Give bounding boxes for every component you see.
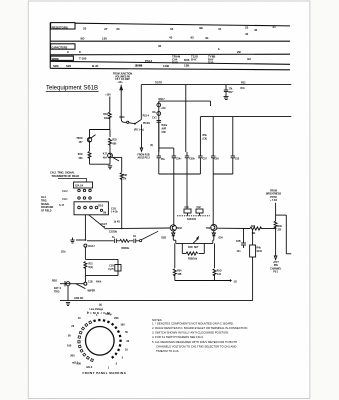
svg-text:+ D9: + D9 (161, 108, 167, 110)
svg-text:CH 1: CH 1 (62, 199, 68, 201)
svg-text:4b: 4b (205, 36, 209, 40)
svg-text:R3B/10k: R3B/10k (188, 259, 198, 261)
svg-text:1OB: 1OB (163, 64, 169, 68)
svg-text:SIGNAL: SIGNAL (41, 203, 50, 206)
svg-text:40b: 40b (104, 117, 109, 120)
svg-text:S20: S20 (66, 64, 72, 68)
svg-text:R21: R21 (89, 264, 94, 266)
svg-text:44: 44 (218, 27, 222, 31)
svg-text:C1/5: C1/5 (111, 208, 117, 210)
svg-text:3B: 3B (199, 26, 203, 30)
svg-text:+ 7-D4: + 7-D4 (270, 199, 278, 202)
svg-text:RESISTORS: RESISTORS (52, 25, 68, 29)
svg-text:C1B: C1B (88, 282, 93, 284)
svg-text:D3B: D3B (161, 238, 166, 240)
svg-text:4. FOR S1 SWITCH WAFERS SEE FI: 4. FOR S1 SWITCH WAFERS SEE FIG.6. (152, 335, 204, 339)
svg-text:TRIG: TRIG (54, 291, 60, 293)
svg-text:100: 100 (120, 322, 125, 326)
svg-text:FS 7 1/4 AMP: FS 7 1/4 AMP (115, 78, 130, 81)
svg-text:AVR: AVR (162, 128, 167, 131)
svg-text:27: 27 (104, 27, 108, 31)
svg-text:FROM END: FROM END (41, 207, 54, 209)
svg-text:CHANNEL: CHANNEL (270, 267, 282, 270)
svg-text:R45a: R45a (162, 124, 168, 127)
svg-text:D06: D06 (184, 58, 190, 62)
svg-text:10n: 10n (237, 251, 242, 253)
svg-text:3. SWITCH SHOWN IN FULLY ANTI-: 3. SWITCH SHOWN IN FULLY ANTI-CLOCKWISE … (152, 331, 229, 335)
svg-text:R67: R67 (229, 92, 234, 94)
svg-text:FROM: FROM (270, 191, 277, 193)
svg-text:R4O: R4O (188, 246, 193, 249)
svg-text:R8/B2x: R8/B2x (122, 248, 131, 250)
svg-text:C41: C41 (217, 273, 222, 276)
svg-text:R4b: R4b (257, 247, 262, 250)
svg-text:23: 23 (245, 26, 249, 30)
svg-text:R54: R54 (177, 270, 182, 273)
svg-text:CH.2. TRIG. SIGNAL: CH.2. TRIG. SIGNAL (50, 170, 75, 174)
svg-text:D20: D20 (208, 61, 214, 65)
svg-text:1. * DENOTES COMPONENTS NOT MO: 1. * DENOTES COMPONENTS NOT MOUNTED ON P… (152, 321, 234, 325)
svg-text:R1/3: R1/3 (98, 205, 104, 207)
svg-text:400h: 400h (96, 281, 102, 284)
svg-text:(b): (b) (99, 305, 102, 307)
svg-text:(PS 1-4c): (PS 1-4c) (134, 129, 144, 132)
svg-text:EXT. X: EXT. X (54, 288, 61, 290)
svg-text:CV1: CV1 (152, 118, 157, 120)
svg-text:PS2: PS2 (241, 83, 246, 85)
svg-text:C32: C32 (197, 207, 202, 209)
svg-text:NOTES:: NOTES: (152, 318, 162, 322)
svg-text:C31: C31 (185, 207, 190, 209)
svg-text:D34: D34 (219, 237, 224, 240)
svg-text:mS.1: mS.1 (72, 361, 79, 365)
svg-text:VOLUMES R6: VOLUMES R6 (115, 76, 131, 78)
svg-text:+10s: +10s (117, 82, 123, 84)
svg-text:1b 4O: 1b 4O (114, 221, 121, 224)
svg-text:R3B: R3B (123, 175, 128, 177)
svg-text:WIRE: WIRE (52, 57, 59, 61)
svg-text:92: 92 (191, 36, 195, 40)
svg-text:SET: SET (194, 247, 199, 249)
svg-text:R5b: R5b (203, 135, 208, 137)
svg-text:R3O: R3O (78, 154, 83, 156)
svg-text:BRIGHTNESS: BRIGHTNESS (266, 194, 282, 196)
svg-text:23: 23 (83, 26, 87, 30)
svg-text:POT/2: POT/2 (270, 197, 277, 199)
svg-text:FRONT PANEL MARKING: FRONT PANEL MARKING (83, 371, 127, 375)
svg-text:Cy75: Cy75 (108, 269, 114, 271)
svg-text:TR32: TR32 (176, 228, 182, 230)
svg-text:44B: 44B (177, 273, 182, 276)
svg-text:S-17: S-17 (59, 205, 65, 207)
svg-text:33: 33 (116, 27, 120, 31)
svg-text:Telequipment S61B: Telequipment S61B (46, 86, 98, 92)
svg-text:S44/C34: S44/C34 (187, 218, 197, 221)
svg-text:R32: R32 (113, 140, 118, 142)
svg-text:13B: 13B (184, 64, 189, 68)
svg-text:11-4B: 11-4B (135, 64, 143, 68)
svg-text:(C6): (C6) (203, 139, 208, 141)
svg-text:OF FIELD: OF FIELD (41, 211, 52, 213)
svg-text:3H: 3H (247, 57, 251, 61)
svg-text:C53: C53 (235, 159, 240, 161)
svg-text:D3B: D3B (172, 61, 178, 65)
svg-text:b: b (218, 47, 220, 51)
svg-text:R5O: R5O (217, 271, 222, 273)
svg-text:2. RA102 DENOTES P.C. BOARD EY: 2. RA102 DENOTES P.C. BOARD EYELET OR TE… (152, 326, 247, 330)
svg-text:C56: C56 (214, 159, 219, 161)
svg-text:WIPER: WIPER (88, 291, 96, 293)
svg-text:CH.1: CH.1 (41, 197, 47, 199)
svg-text:TRANSMITD OF FIELD: TRANSMITD OF FIELD (52, 174, 80, 178)
svg-text:RA3.7: RA3.7 (88, 245, 95, 248)
svg-text:2Ob: 2Ob (61, 252, 66, 254)
svg-text:CH 2: CH 2 (62, 191, 68, 193)
svg-text:FROM JUNCTION: FROM JUNCTION (113, 74, 132, 76)
svg-text:C3B: C3B (236, 241, 241, 243)
svg-text:S2A 1/4: S2A 1/4 (75, 184, 84, 187)
svg-text:PIN: PIN (274, 265, 278, 267)
svg-text:+TO?: +TO? (273, 262, 279, 264)
svg-text:40: 40 (254, 28, 258, 32)
svg-text:C57: C57 (203, 159, 208, 161)
svg-text:200: 200 (70, 353, 75, 357)
svg-text:5. ALL READINGS MEASURED WITH: 5. ALL READINGS MEASURED WITH 20K/V METE… (152, 340, 237, 344)
svg-text:S2B: S2B (53, 64, 59, 68)
svg-text:D5+: D5+ (161, 159, 166, 161)
svg-text:AB/12 PS.3: AB/12 PS.3 (138, 157, 151, 160)
svg-text:S100: S100 (257, 251, 263, 253)
svg-text:D41: D41 (241, 87, 246, 90)
svg-text:PS1-4: PS1-4 (143, 114, 150, 117)
svg-text:2B: 2B (237, 50, 241, 54)
svg-text:21: 21 (273, 25, 277, 29)
svg-text:mS-2: mS-2 (86, 365, 93, 369)
svg-text:TRIG.: TRIG. (41, 200, 47, 202)
svg-text:T-100: T-100 (79, 57, 87, 61)
svg-text:R49: R49 (278, 225, 283, 228)
svg-text:30: 30 (158, 44, 162, 48)
svg-text:130: 130 (102, 37, 107, 41)
svg-text:R46: R46 (251, 225, 256, 228)
svg-text:D4Y: D4Y (191, 58, 197, 62)
svg-text:PU/D4: PU/D4 (143, 122, 150, 125)
svg-text:R4/9: R4/9 (120, 116, 126, 119)
svg-text:-1O: -1O (233, 281, 237, 283)
svg-text:34: 34 (170, 27, 174, 31)
svg-text:1-4-2b: 1-4-2b (111, 210, 118, 213)
svg-text:D4+: D4+ (152, 111, 157, 114)
svg-text:100: 100 (67, 344, 72, 348)
svg-text:K17: K17 (103, 154, 108, 156)
svg-text:TIME/CM TO 1mS.: TIME/CM TO 1mS. (156, 349, 180, 353)
svg-text:CAPACITORS: CAPACITORS (52, 46, 68, 49)
svg-text:(F): (F) (150, 145, 153, 147)
svg-text:+10V: +10V (105, 94, 111, 96)
svg-text:C55h: C55h (189, 159, 195, 161)
svg-text:R6/17: R6/17 (159, 99, 166, 101)
svg-text:CHANNELS VOLTS/CM TO CH1 TRIG: CHANNELS VOLTS/CM TO CH1 TRIG SELECTOR T… (156, 344, 236, 348)
svg-text:42: 42 (245, 32, 249, 36)
svg-text:C38: C38 (162, 132, 167, 134)
svg-text:40A: 40A (103, 157, 108, 160)
svg-text:C2O: C2O (109, 266, 114, 268)
svg-text:C54+: C54+ (176, 158, 182, 161)
svg-text:TR3O: TR3O (76, 138, 82, 140)
svg-text:PS 1: PS 1 (273, 272, 279, 274)
svg-text:200: 200 (114, 316, 119, 320)
svg-text:TIME/CM: TIME/CM (87, 311, 111, 315)
svg-text:RSO: RSO (52, 281, 57, 283)
svg-text:43: 43 (169, 36, 173, 40)
svg-text:B-4F: B-4F (92, 64, 99, 68)
svg-text:FROM R1B: FROM R1B (138, 154, 150, 156)
svg-text:PS13: PS13 (145, 59, 152, 63)
svg-text:R(2): R(2) (89, 267, 94, 269)
svg-text:TR33: TR33 (206, 228, 212, 230)
svg-text:LINK RC: LINK RC (74, 298, 84, 300)
svg-text:1M: 1M (103, 213, 106, 215)
svg-text:TO/TR: TO/TR (155, 83, 162, 85)
svg-text:C2/2Ob: C2/2Ob (109, 232, 118, 234)
